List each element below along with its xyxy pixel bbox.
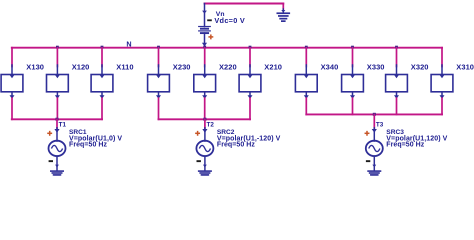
- junction bus N at X340: [305, 46, 308, 49]
- wire bottom bus down to SRC2: [204, 119, 206, 128]
- svg-text:X220: X220: [219, 63, 237, 72]
- svg-text:Vdc=0 V: Vdc=0 V: [214, 16, 245, 25]
- wire X330 down to bottom bus: [352, 98, 354, 114]
- junction bus N at X230: [157, 46, 160, 49]
- battery minus polarity mark: [207, 19, 212, 21]
- svg-text:X120: X120: [72, 63, 90, 72]
- wire bus N down to X320: [396, 48, 398, 67]
- svg-text:Freq=50 Hz: Freq=50 Hz: [386, 142, 424, 149]
- svg-text:X230: X230: [173, 63, 191, 72]
- block X230: [148, 65, 170, 99]
- junction bus N at X120: [56, 46, 59, 49]
- svg-text:X330: X330: [367, 63, 385, 72]
- minus mark SRC2: [197, 160, 201, 162]
- svg-text:X310: X310: [456, 63, 474, 72]
- svg-text:T3: T3: [376, 122, 384, 129]
- wire X310 down to bottom bus: [441, 98, 443, 114]
- wire bottom bus down to SRC1: [56, 119, 58, 128]
- AC source SRC1: [49, 128, 66, 171]
- wire bus N down to X340: [305, 48, 307, 67]
- junction T2 on bottom bus: [203, 118, 206, 121]
- wire bus N down to X230: [158, 48, 160, 67]
- block X130: [1, 65, 23, 99]
- bottom bus group 3 (T3 net): [306, 113, 442, 115]
- wire X120 down to bottom bus: [56, 98, 58, 119]
- wire top-right vertical stub to ground: [282, 4, 284, 10]
- block X110: [91, 65, 113, 99]
- ground SRC2: [198, 170, 212, 177]
- junction bus N at X110: [101, 46, 104, 49]
- plus mark SRC2: [195, 131, 200, 136]
- junction T1 on bottom bus: [56, 118, 59, 121]
- wire bus N down to X210: [249, 48, 251, 67]
- junction bus N at X210: [249, 46, 252, 49]
- svg-text:T2: T2: [207, 122, 215, 129]
- wire bus N down to X220: [204, 48, 206, 67]
- wire X110 down to bottom bus: [101, 98, 103, 119]
- wire X340 down to bottom bus: [305, 98, 307, 114]
- junction bus N at X320: [395, 46, 398, 49]
- svg-text:X130: X130: [26, 63, 44, 72]
- wire X320 down to bottom bus: [396, 98, 398, 114]
- junction bus N at X220: [203, 46, 206, 49]
- wire Vn top horizontal: [205, 3, 284, 5]
- block X220: [194, 65, 216, 99]
- ground top-right (node 0): [277, 9, 291, 22]
- AC source SRC3: [366, 128, 383, 171]
- plus mark SRC1: [47, 131, 52, 136]
- svg-text:Freq=50 Hz: Freq=50 Hz: [69, 142, 107, 149]
- node N bus wire: [12, 47, 442, 49]
- block X340: [295, 65, 317, 99]
- junction T3 on bottom bus: [373, 113, 376, 116]
- svg-text:T1: T1: [59, 122, 67, 129]
- ground SRC3: [367, 170, 381, 177]
- wire X220 down to bottom bus: [204, 98, 206, 119]
- svg-text:X110: X110: [116, 63, 133, 72]
- block X320: [386, 65, 408, 99]
- battery Vn (Vdc=0 V): [199, 4, 211, 47]
- svg-text:N: N: [126, 40, 131, 49]
- wire bottom bus down to SRC3: [373, 114, 375, 128]
- bottom bus group 2 (T2 net): [159, 118, 251, 120]
- wire X130 down to bottom bus: [11, 98, 13, 119]
- minus mark SRC1: [49, 160, 53, 162]
- plus mark SRC3: [365, 131, 370, 136]
- ground SRC1: [50, 170, 64, 177]
- svg-text:X210: X210: [264, 63, 282, 72]
- AC source SRC2: [196, 128, 213, 171]
- minus mark SRC3: [366, 160, 370, 162]
- wire bus N down to X130: [11, 48, 13, 67]
- svg-text:X320: X320: [411, 63, 429, 72]
- wire X230 down to bottom bus: [158, 98, 160, 119]
- wire bus N down to X110: [101, 48, 103, 67]
- block X330: [342, 65, 364, 99]
- wire bus N down to X120: [56, 48, 58, 67]
- wire X210 down to bottom bus: [249, 98, 251, 119]
- svg-text:X340: X340: [321, 63, 339, 72]
- block X310: [431, 65, 453, 99]
- bottom bus group 1 (T1 net): [12, 118, 102, 120]
- junction bus N at X330: [351, 46, 354, 49]
- wire bus N down to X330: [352, 48, 354, 67]
- block X120: [47, 65, 69, 99]
- wire bus N down to X310: [441, 48, 443, 67]
- block X210: [239, 65, 261, 99]
- battery plus polarity mark: [208, 34, 213, 39]
- svg-text:Freq=50 Hz: Freq=50 Hz: [217, 142, 255, 149]
